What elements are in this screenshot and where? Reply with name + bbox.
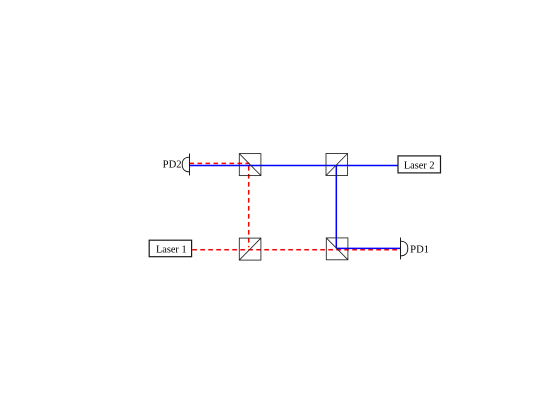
wire: red dashed beam Laser 1 to PD1 xyxy=(192,249,400,251)
beamsplitter BS2 (top-right) xyxy=(326,154,348,176)
svg-text:Laser 1: Laser 1 xyxy=(156,244,187,255)
laser source box Laser 2 xyxy=(398,156,441,173)
svg-text:PD2: PD2 xyxy=(163,160,182,171)
beamsplitter BS1 (top-left) xyxy=(239,154,261,176)
photodetector PD1 (right) xyxy=(401,238,408,260)
laser source box Laser 1 xyxy=(149,240,191,257)
wire: blue beam BS4 to PD1 xyxy=(336,247,400,249)
wire: red dashed beam vertical BS1 to BS3 xyxy=(248,166,250,247)
wire: blue beam PD2 to Laser 2 xyxy=(190,165,399,167)
beamsplitter BS3 (bottom-left) xyxy=(239,238,261,260)
svg-text:Laser 2: Laser 2 xyxy=(404,160,435,171)
wire: blue beam vertical BS2 to BS4 xyxy=(335,166,337,249)
svg-text:PD1: PD1 xyxy=(410,244,429,255)
photodetector PD2 (left) xyxy=(182,154,189,176)
wire: red dashed beam PD2 to BS1 xyxy=(190,162,250,164)
beamsplitter BS4 (bottom-right) xyxy=(326,238,348,260)
